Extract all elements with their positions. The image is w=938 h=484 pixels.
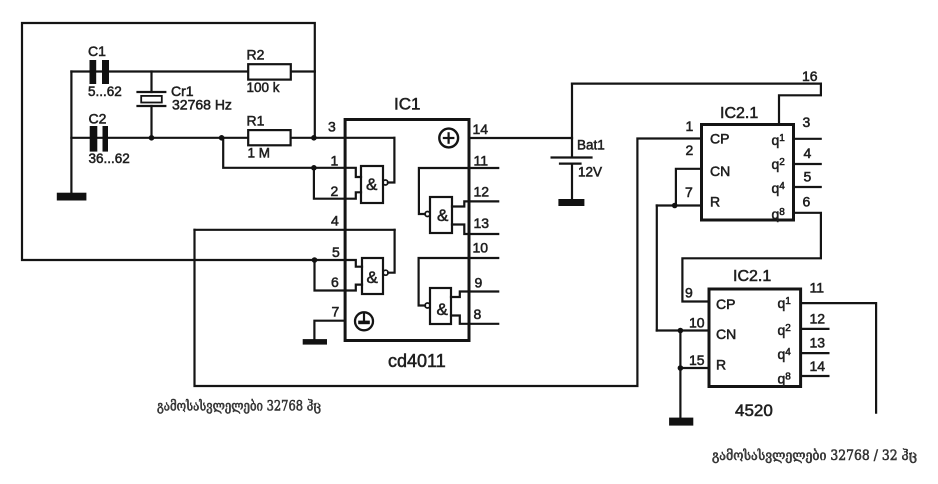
svg-text:100 k: 100 k (247, 80, 280, 95)
svg-text:12: 12 (810, 311, 826, 327)
svg-text:q1: q1 (772, 132, 786, 148)
svg-text:5: 5 (332, 244, 340, 260)
svg-text:q2: q2 (772, 156, 786, 172)
svg-text:5...62: 5...62 (88, 84, 122, 99)
svg-text:7: 7 (332, 304, 340, 320)
svg-text:6: 6 (331, 274, 339, 290)
svg-text:8: 8 (474, 306, 482, 322)
svg-text:R2: R2 (247, 46, 265, 62)
svg-text:R: R (716, 357, 726, 373)
svg-text:&: & (437, 206, 449, 225)
svg-text:9: 9 (475, 275, 483, 291)
svg-text:CP: CP (710, 131, 729, 147)
svg-text:R: R (710, 194, 720, 210)
svg-text:C1: C1 (88, 43, 106, 59)
svg-text:4: 4 (804, 145, 812, 161)
svg-text:4: 4 (331, 213, 339, 229)
svg-text:7: 7 (685, 184, 693, 200)
svg-text:&: & (437, 300, 449, 319)
svg-text:3: 3 (328, 119, 336, 135)
svg-text:q2: q2 (778, 322, 792, 338)
svg-text:14: 14 (473, 121, 489, 137)
svg-text:15: 15 (689, 352, 705, 368)
svg-text:Bat1: Bat1 (577, 138, 605, 153)
svg-text:12V: 12V (578, 165, 602, 180)
svg-text:12: 12 (474, 184, 490, 200)
svg-text:11: 11 (474, 153, 489, 169)
svg-text:11: 11 (810, 280, 825, 296)
svg-text:CP: CP (716, 296, 735, 312)
svg-text:IC1: IC1 (394, 95, 420, 114)
svg-text:&: & (366, 175, 378, 194)
svg-text:10: 10 (473, 240, 489, 256)
svg-text:36...62: 36...62 (89, 151, 130, 166)
svg-text:გამოსასვლელები 32768 / 32 ჰც: გამოსასვლელები 32768 / 32 ჰც (712, 448, 917, 464)
svg-text:13: 13 (474, 215, 490, 231)
svg-text:q8: q8 (778, 371, 792, 387)
svg-text:1: 1 (331, 153, 339, 169)
svg-text:3: 3 (803, 114, 811, 130)
svg-text:R1: R1 (247, 112, 265, 128)
svg-text:14: 14 (810, 358, 826, 374)
svg-text:q4: q4 (778, 346, 792, 362)
svg-text:C2: C2 (89, 110, 107, 126)
svg-text:q1: q1 (778, 295, 792, 311)
svg-text:IC2.1: IC2.1 (720, 105, 758, 122)
svg-text:cd4011: cd4011 (388, 351, 446, 371)
svg-text:32768 Hz: 32768 Hz (172, 97, 232, 113)
svg-text:q4: q4 (772, 180, 786, 196)
svg-text:2: 2 (686, 142, 694, 158)
svg-text:CN: CN (710, 163, 730, 179)
svg-text:IC2.1: IC2.1 (733, 268, 771, 285)
svg-text:10: 10 (689, 315, 705, 331)
svg-text:9: 9 (685, 285, 693, 301)
svg-text:1 M: 1 M (248, 145, 271, 160)
svg-text:CN: CN (716, 326, 736, 342)
svg-text:6: 6 (803, 194, 811, 210)
svg-text:4520: 4520 (735, 401, 773, 420)
svg-text:1: 1 (686, 118, 694, 134)
svg-text:&: & (367, 268, 379, 287)
svg-text:13: 13 (810, 335, 826, 351)
svg-text:2: 2 (331, 183, 339, 199)
svg-text:გამოსასვლელები 32768 ჰც: გამოსასვლელები 32768 ჰც (157, 399, 321, 415)
svg-text:16: 16 (802, 68, 818, 84)
svg-text:5: 5 (804, 169, 812, 185)
